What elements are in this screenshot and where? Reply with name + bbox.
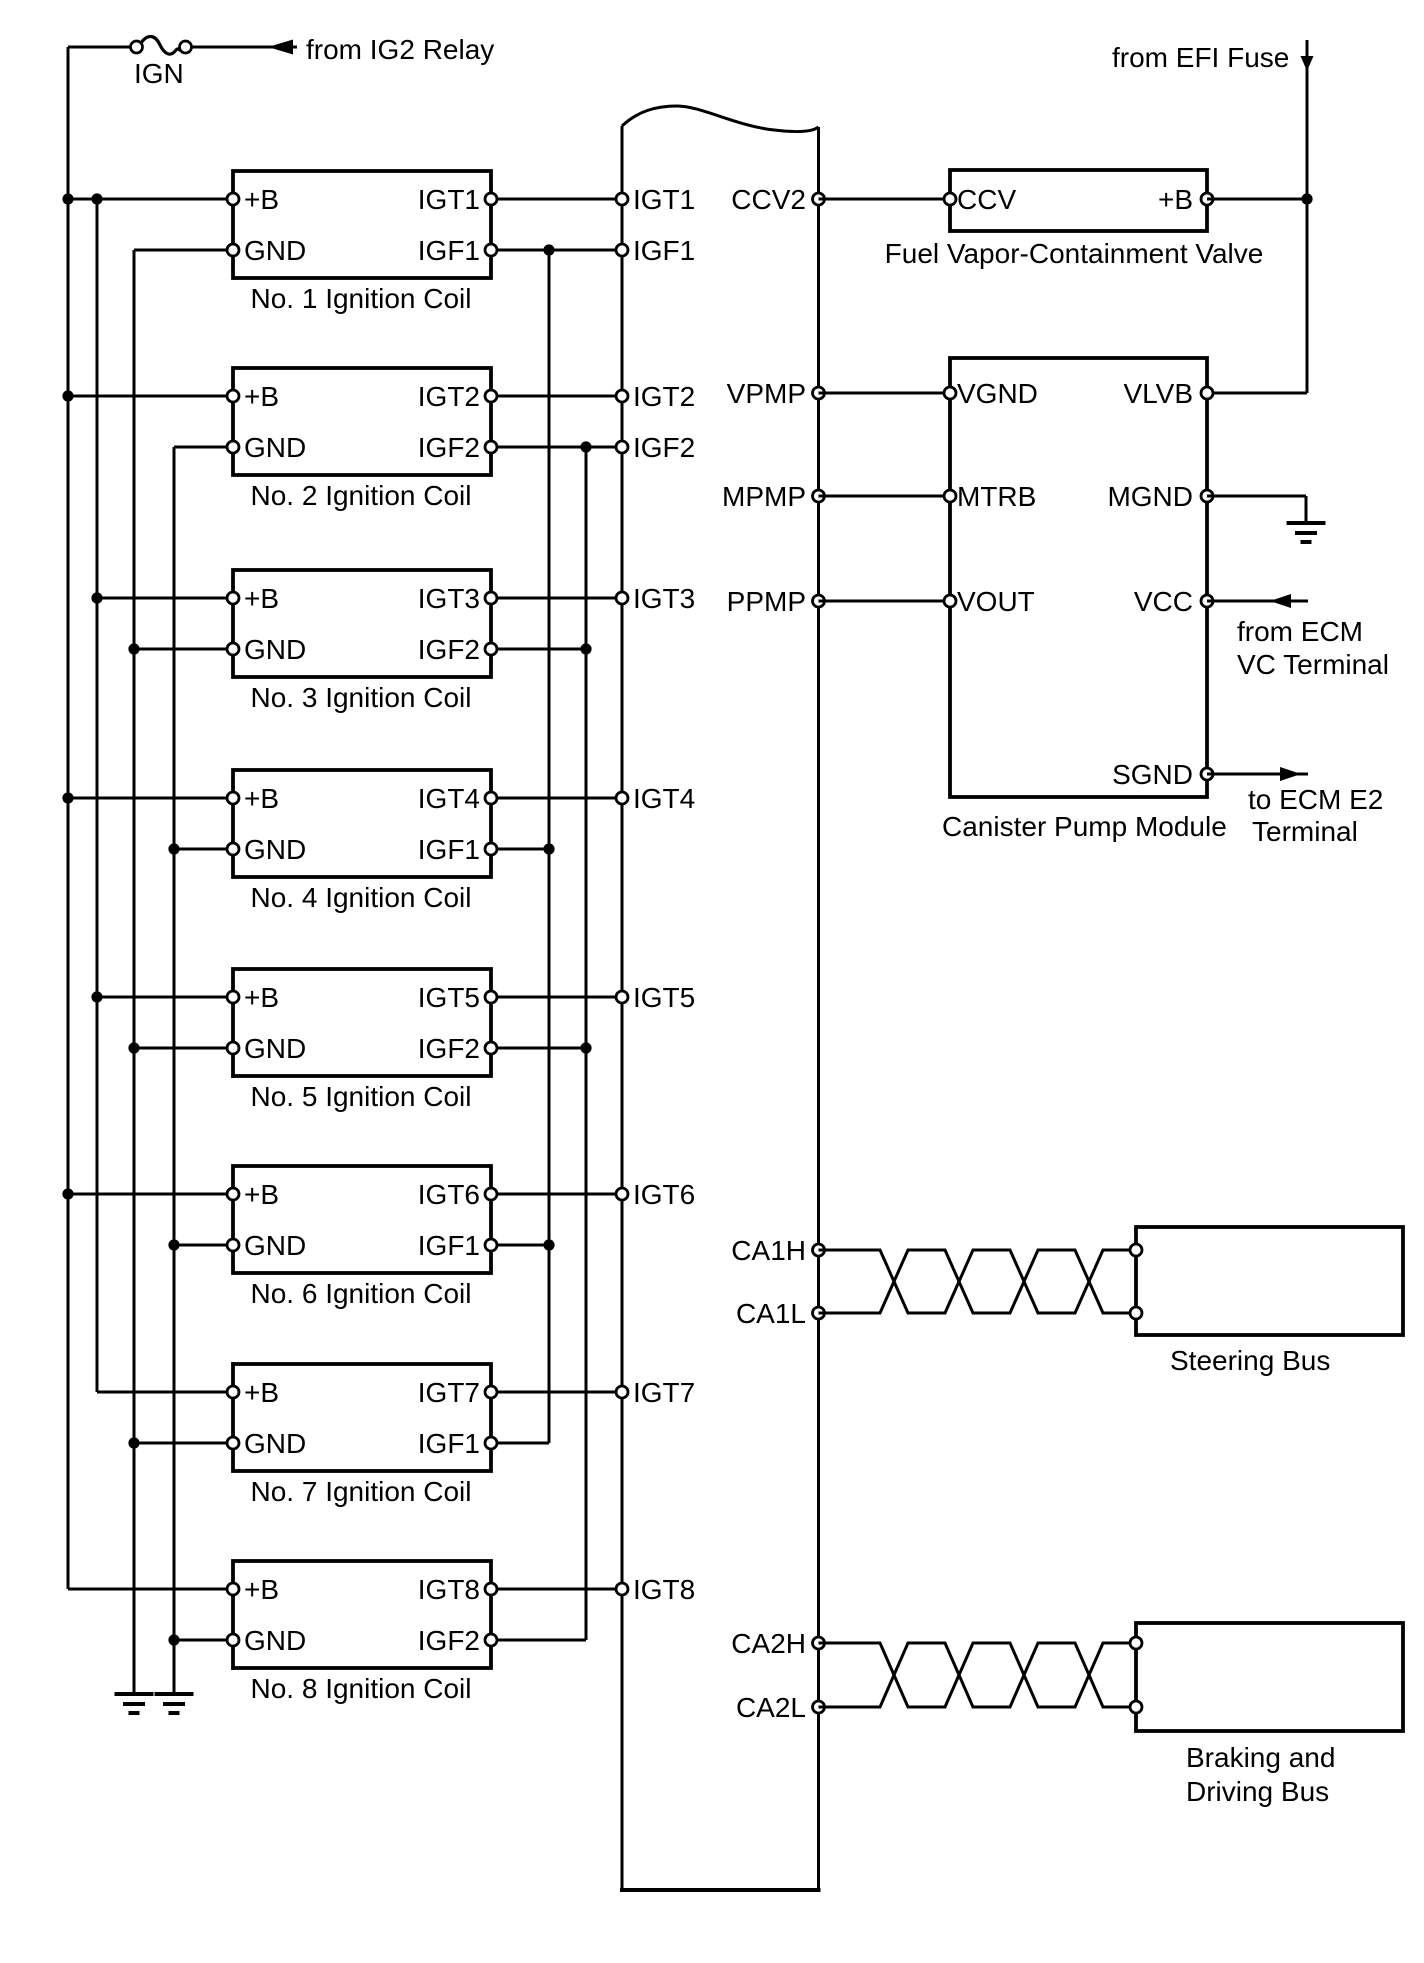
label GND coil 4 [244, 834, 306, 865]
junction rail D coil 8 GND [168, 1634, 179, 1645]
wire rail B (+B bus odd coils) [96, 199, 99, 1392]
ignition coil box No.4 [233, 770, 491, 877]
label ECM IGF1 [633, 235, 695, 266]
ground rail C [115, 1694, 154, 1713]
pin canister MGND [1201, 490, 1213, 502]
label IGT2 coil 2 [418, 381, 480, 412]
svg-text:+B: +B [244, 583, 279, 614]
svg-text:from IG2 Relay: from IG2 Relay [306, 34, 494, 65]
pin +B coil 6 [227, 1188, 239, 1200]
junction rail B coil 5 +B [91, 991, 102, 1002]
wire +B coil 4 [68, 797, 233, 800]
junction rail C coil 3 GND [128, 643, 139, 654]
label IGF2 coil 3 [418, 634, 480, 665]
label GND coil 8 [244, 1625, 306, 1656]
ground rail D [155, 1694, 194, 1713]
label ECM MPMP [722, 481, 806, 512]
label IGF1 coil 6 [418, 1230, 480, 1261]
label Steering Bus [1170, 1345, 1330, 1376]
label ECM IGT1 [633, 184, 695, 215]
label Braking and [1186, 1742, 1335, 1773]
wire IGT1 coil 1 to ECM [491, 198, 622, 201]
wire VCC [1207, 600, 1308, 603]
wire IGF2 coil 3 [491, 648, 586, 651]
wire rail D (GND bus even coils) [173, 447, 176, 1694]
wire CCV2 to CCV [819, 198, 951, 201]
svg-text:Braking and: Braking and [1186, 1742, 1335, 1773]
svg-text:No. 4 Ignition Coil: No. 4 Ignition Coil [250, 882, 471, 913]
pin ECM MPMP [813, 490, 825, 502]
label from IG2 Relay [306, 34, 494, 65]
label canister VGND [957, 378, 1038, 409]
pin ECM CA1H [813, 1244, 825, 1256]
wire +B coil 7 [97, 1391, 233, 1394]
label IGF1 coil 7 [418, 1428, 480, 1459]
label canister VCC [1134, 586, 1193, 617]
svg-text:IGT1: IGT1 [633, 184, 695, 215]
pin ECM CCV2 [813, 193, 825, 205]
wire IGT6 coil 6 to ECM [491, 1193, 622, 1196]
pin IGF2 coil 5 [485, 1042, 497, 1054]
wire IGT3 coil 3 to ECM [491, 597, 622, 600]
label canister MTRB [957, 481, 1036, 512]
svg-text:+B: +B [244, 982, 279, 1013]
steering bus box [1136, 1227, 1403, 1335]
label IGF2 coil 5 [418, 1033, 480, 1064]
ignition coil box No.3 [233, 570, 491, 677]
label ECM PPMP [727, 586, 806, 617]
svg-text:GND: GND [244, 834, 306, 865]
junction IGF1 net coil 6 [543, 1239, 554, 1250]
pin valve +B [1201, 193, 1213, 205]
svg-text:Terminal: Terminal [1252, 816, 1358, 847]
wire IGT5 coil 5 to ECM [491, 996, 622, 999]
label IGF2 coil 8 [418, 1625, 480, 1656]
svg-text:IGT5: IGT5 [418, 982, 480, 1013]
pin ECM IGT5 [616, 991, 628, 1003]
label IGT5 coil 5 [418, 982, 480, 1013]
pin GND coil 8 [227, 1634, 239, 1646]
arrow from IG2 Relay [268, 40, 293, 55]
label from ECM [1237, 616, 1363, 647]
pin +B coil 8 [227, 1583, 239, 1595]
pin IGF1 coil 1 [485, 244, 497, 256]
wire IGF2 coil 8 [491, 1639, 586, 1642]
wire IGF2 coil 2 to ECM [491, 446, 622, 449]
wire IGF2 vertical net [585, 447, 588, 1640]
svg-text:IGT4: IGT4 [633, 783, 695, 814]
svg-text:IGF1: IGF1 [418, 1428, 480, 1459]
label IGT4 coil 4 [418, 783, 480, 814]
wire IGT4 coil 4 to ECM [491, 797, 622, 800]
pin IGT3 coil 3 [485, 592, 497, 604]
svg-text:MTRB: MTRB [957, 481, 1036, 512]
label IGT8 coil 8 [418, 1574, 480, 1605]
pin CCV [944, 193, 956, 205]
svg-text:+B: +B [1158, 184, 1193, 215]
junction IGF2 net coil 3 [580, 643, 591, 654]
pin IGF2 coil 2 [485, 441, 497, 453]
svg-text:+B: +B [244, 1377, 279, 1408]
label IGF1 coil 1 [418, 235, 480, 266]
arrow out of SGND [1280, 767, 1301, 781]
label No. 4 Ignition Coil [250, 882, 471, 913]
wire CA2H twisted pair [819, 1643, 1141, 1707]
svg-text:IGF1: IGF1 [418, 834, 480, 865]
pin ECM IGT8 [616, 1583, 628, 1595]
pin braking bus CA2L [1130, 1701, 1142, 1713]
svg-text:PPMP: PPMP [727, 586, 806, 617]
label ECM IGT5 [633, 982, 695, 1013]
pin ECM IGT6 [616, 1188, 628, 1200]
wire CA2L twisted pair [819, 1643, 1141, 1707]
junction IGF2 net coil 5 [580, 1042, 591, 1053]
label ECM IGT6 [633, 1179, 695, 1210]
svg-text:IGF2: IGF2 [418, 432, 480, 463]
ignition coil box No.6 [233, 1166, 491, 1273]
label ECM IGT4 [633, 783, 695, 814]
svg-text:Driving Bus: Driving Bus [1186, 1776, 1329, 1807]
pin +B coil 7 [227, 1386, 239, 1398]
wire IGF1 vertical net [548, 250, 551, 1443]
label IGN [134, 58, 184, 89]
svg-text:IGF2: IGF2 [418, 634, 480, 665]
ground MGND [1287, 523, 1326, 542]
svg-text:IGT8: IGT8 [418, 1574, 480, 1605]
svg-text:GND: GND [244, 1428, 306, 1459]
label canister SGND [1112, 759, 1193, 790]
pin IGT6 coil 6 [485, 1188, 497, 1200]
svg-text:IGT1: IGT1 [418, 184, 480, 215]
fuel vapor-containment valve box [950, 170, 1207, 231]
label IGT3 coil 3 [418, 583, 480, 614]
svg-text:IGT2: IGT2 [418, 381, 480, 412]
svg-text:IGT3: IGT3 [418, 583, 480, 614]
label to ECM E2 [1248, 784, 1383, 815]
canister pump module box [950, 358, 1207, 797]
pin GND coil 1 [227, 244, 239, 256]
svg-text:IGT5: IGT5 [633, 982, 695, 1013]
junction IGF2 net coil 2 [580, 441, 591, 452]
label ECM CA2L [736, 1692, 806, 1723]
label canister VOUT [957, 586, 1035, 617]
svg-text:Canister Pump Module: Canister Pump Module [942, 811, 1227, 842]
wire IGF1 coil 1 to ECM [491, 249, 622, 252]
wire GND coil 6 [174, 1244, 233, 1247]
junction rail A coil 6 +B [62, 1188, 73, 1199]
wire EFI fuse vertical [1306, 40, 1309, 393]
label +B coil 4 [244, 783, 279, 814]
wire +B coil 8 [68, 1588, 233, 1591]
wire IGF1 coil 7 [491, 1442, 549, 1445]
wire +B coil 3 [97, 597, 233, 600]
svg-text:VLVB: VLVB [1123, 378, 1193, 409]
pin ECM CA2H [813, 1637, 825, 1649]
wire fuse to IG2 relay arrow [191, 46, 297, 49]
label No. 6 Ignition Coil [250, 1278, 471, 1309]
svg-text:CA1H: CA1H [731, 1235, 806, 1266]
label GND coil 1 [244, 235, 306, 266]
label ECM IGF2 [633, 432, 695, 463]
pin ECM CA1L [813, 1307, 825, 1319]
label +B coil 8 [244, 1574, 279, 1605]
svg-text:No. 6 Ignition Coil: No. 6 Ignition Coil [250, 1278, 471, 1309]
wire rail A (+B bus, IGN) [67, 47, 70, 1589]
pin IGT5 coil 5 [485, 991, 497, 1003]
wire IGF2 coil 5 [491, 1047, 586, 1050]
wire GND coil 4 [174, 848, 233, 851]
svg-text:to ECM E2: to ECM E2 [1248, 784, 1383, 815]
wire VLVB to EFI line [1207, 392, 1307, 395]
wire SGND [1207, 773, 1308, 776]
svg-text:IGF2: IGF2 [418, 1625, 480, 1656]
label Canister Pump Module [942, 811, 1227, 842]
svg-text:GND: GND [244, 1625, 306, 1656]
junction rail B coil 1 +B [91, 193, 102, 204]
label VC Terminal [1237, 649, 1389, 680]
wire CA1H twisted pair [819, 1250, 1141, 1313]
wire +B coil 6 [68, 1193, 233, 1196]
svg-text:IGF1: IGF1 [633, 235, 695, 266]
braking and driving bus box [1136, 1623, 1403, 1731]
wire VPMP to VGND [819, 392, 951, 395]
label from EFI Fuse [1112, 42, 1289, 73]
wire IGF1 coil 6 [491, 1244, 549, 1247]
wire CA1L twisted pair [819, 1250, 1141, 1313]
wire GND coil 5 [134, 1047, 233, 1050]
pin canister VLVB [1201, 387, 1213, 399]
pin +B coil 5 [227, 991, 239, 1003]
svg-text:VCC: VCC [1134, 586, 1193, 617]
pin ECM PPMP [813, 595, 825, 607]
label GND coil 5 [244, 1033, 306, 1064]
label CCV [957, 184, 1016, 215]
svg-text:VPMP: VPMP [727, 378, 806, 409]
ignition coil box No.1 [233, 171, 491, 278]
label +B coil 3 [244, 583, 279, 614]
svg-text:SGND: SGND [1112, 759, 1193, 790]
ignition coil box No.8 [233, 1561, 491, 1668]
label ECM CCV2 [731, 184, 806, 215]
pin canister VOUT [944, 595, 956, 607]
wire GND coil 7 [134, 1442, 233, 1445]
pin ECM VPMP [813, 387, 825, 399]
svg-text:IGT8: IGT8 [633, 1574, 695, 1605]
svg-text:No. 7 Ignition Coil: No. 7 Ignition Coil [250, 1476, 471, 1507]
svg-text:VOUT: VOUT [957, 586, 1035, 617]
label IGF1 coil 4 [418, 834, 480, 865]
svg-text:from ECM: from ECM [1237, 616, 1363, 647]
arrow from EFI fuse [1301, 56, 1314, 71]
fuse IGN [131, 36, 192, 54]
svg-text:CCV: CCV [957, 184, 1016, 215]
label ECM IGT8 [633, 1574, 695, 1605]
wire +B coil 1 [68, 198, 233, 201]
svg-text:VC Terminal: VC Terminal [1237, 649, 1389, 680]
label ECM IGT3 [633, 583, 695, 614]
svg-text:GND: GND [244, 432, 306, 463]
svg-text:GND: GND [244, 634, 306, 665]
label GND coil 2 [244, 432, 306, 463]
svg-text:CCV2: CCV2 [731, 184, 806, 215]
pin ECM IGT1 [616, 193, 628, 205]
svg-text:+B: +B [244, 381, 279, 412]
svg-text:IGF2: IGF2 [418, 1033, 480, 1064]
junction EFI line +B [1301, 193, 1312, 204]
label ECM CA1L [736, 1298, 806, 1329]
junction rail D coil 6 GND [168, 1239, 179, 1250]
svg-text:No. 3 Ignition Coil: No. 3 Ignition Coil [250, 682, 471, 713]
pin steering bus CA1H [1130, 1244, 1142, 1256]
label IGT7 coil 7 [418, 1377, 480, 1408]
wire MGND to ground [1207, 496, 1306, 523]
pin +B coil 4 [227, 792, 239, 804]
label IGT1 coil 1 [418, 184, 480, 215]
label canister MGND [1107, 481, 1193, 512]
wire rail C (GND bus odd coils) [133, 250, 136, 1694]
pin GND coil 5 [227, 1042, 239, 1054]
svg-text:GND: GND [244, 1033, 306, 1064]
svg-text:IGT3: IGT3 [633, 583, 695, 614]
svg-text:+B: +B [244, 1179, 279, 1210]
svg-text:IGN: IGN [134, 58, 184, 89]
svg-text:from EFI Fuse: from EFI Fuse [1112, 42, 1289, 73]
pin IGT7 coil 7 [485, 1386, 497, 1398]
svg-text:Fuel Vapor-Containment Valve: Fuel Vapor-Containment Valve [885, 238, 1264, 269]
wire PPMP to VOUT [819, 600, 951, 603]
svg-text:No. 1 Ignition Coil: No. 1 Ignition Coil [250, 283, 471, 314]
wire GND coil 3 [134, 648, 233, 651]
junction rail A coil 4 +B [62, 792, 73, 803]
label valve +B [1158, 184, 1193, 215]
pin ECM IGT3 [616, 592, 628, 604]
label ECM IGT2 [633, 381, 695, 412]
pin GND coil 7 [227, 1437, 239, 1449]
pin IGT1 coil 1 [485, 193, 497, 205]
label ECM CA1H [731, 1235, 806, 1266]
label No. 1 Ignition Coil [250, 283, 471, 314]
pin +B coil 3 [227, 592, 239, 604]
label ECM CA2H [731, 1628, 806, 1659]
pin ECM IGT7 [616, 1386, 628, 1398]
label ECM IGT7 [633, 1377, 695, 1408]
svg-text:GND: GND [244, 235, 306, 266]
pin canister VCC [1201, 595, 1213, 607]
label GND coil 3 [244, 634, 306, 665]
svg-text:No. 8 Ignition Coil: No. 8 Ignition Coil [250, 1673, 471, 1704]
svg-text:IGT6: IGT6 [418, 1179, 480, 1210]
ECM right edge [817, 127, 820, 1890]
junction rail B coil 3 +B [91, 592, 102, 603]
junction rail C coil 7 GND [128, 1437, 139, 1448]
pin ECM IGT2 [616, 390, 628, 402]
svg-text:No. 2 Ignition Coil: No. 2 Ignition Coil [250, 480, 471, 511]
pin IGF2 coil 3 [485, 643, 497, 655]
label IGF2 coil 2 [418, 432, 480, 463]
pin +B coil 2 [227, 390, 239, 402]
pin IGT2 coil 2 [485, 390, 497, 402]
arrow into VCC [1270, 594, 1291, 608]
svg-text:IGT6: IGT6 [633, 1179, 695, 1210]
pin GND coil 3 [227, 643, 239, 655]
label ECM VPMP [727, 378, 806, 409]
wire MPMP to MTRB [819, 495, 951, 498]
label Fuel Vapor-Containment Valve [885, 238, 1264, 269]
label IGT6 coil 6 [418, 1179, 480, 1210]
pin ECM IGF2 [616, 441, 628, 453]
svg-text:IGF2: IGF2 [633, 432, 695, 463]
wire IGF1 coil 4 [491, 848, 549, 851]
svg-text:CA2H: CA2H [731, 1628, 806, 1659]
label No. 7 Ignition Coil [250, 1476, 471, 1507]
wire +B coil 2 [68, 395, 233, 398]
label No. 8 Ignition Coil [250, 1673, 471, 1704]
svg-text:+B: +B [244, 184, 279, 215]
svg-text:+B: +B [244, 1574, 279, 1605]
pin canister VGND [944, 387, 956, 399]
label GND coil 7 [244, 1428, 306, 1459]
wire IGT2 coil 2 to ECM [491, 395, 622, 398]
pin +B coil 1 [227, 193, 239, 205]
svg-text:IGT2: IGT2 [633, 381, 695, 412]
ignition coil box No.2 [233, 368, 491, 475]
label No. 5 Ignition Coil [250, 1081, 471, 1112]
junction IGF1 net coil 4 [543, 843, 554, 854]
pin canister SGND [1201, 768, 1213, 780]
pin ECM IGF1 [616, 244, 628, 256]
svg-text:GND: GND [244, 1230, 306, 1261]
pin IGT8 coil 8 [485, 1583, 497, 1595]
junction rail A coil 1 +B [62, 193, 73, 204]
pin steering bus CA1L [1130, 1307, 1142, 1319]
ECM torn top edge [622, 106, 819, 132]
label +B coil 6 [244, 1179, 279, 1210]
pin IGT4 coil 4 [485, 792, 497, 804]
pin IGF1 coil 7 [485, 1437, 497, 1449]
svg-text:CA1L: CA1L [736, 1298, 806, 1329]
pin canister MTRB [944, 490, 956, 502]
label GND coil 6 [244, 1230, 306, 1261]
label +B coil 2 [244, 381, 279, 412]
ECM bottom edge [620, 1888, 821, 1892]
svg-text:MGND: MGND [1107, 481, 1193, 512]
svg-text:MPMP: MPMP [722, 481, 806, 512]
label Terminal [1252, 816, 1358, 847]
junction rail C coil 5 GND [128, 1042, 139, 1053]
pin braking bus CA2H [1130, 1637, 1142, 1649]
label +B coil 5 [244, 982, 279, 1013]
wire IGT7 coil 7 to ECM [491, 1391, 622, 1394]
pin IGF1 coil 6 [485, 1239, 497, 1251]
pin GND coil 4 [227, 843, 239, 855]
wire IGN feed from fuse to rail A corner [68, 46, 131, 49]
junction rail A coil 2 +B [62, 390, 73, 401]
svg-text:CA2L: CA2L [736, 1692, 806, 1723]
ignition coil box No.7 [233, 1364, 491, 1471]
label No. 2 Ignition Coil [250, 480, 471, 511]
ECM left edge [621, 126, 624, 1890]
label +B coil 7 [244, 1377, 279, 1408]
junction IGF1 net coil 1 [543, 244, 554, 255]
svg-text:IGT7: IGT7 [418, 1377, 480, 1408]
ignition coil box No.5 [233, 969, 491, 1076]
svg-text:+B: +B [244, 783, 279, 814]
wire valve +B to EFI line [1207, 198, 1307, 201]
junction rail D coil 4 GND [168, 843, 179, 854]
wire GND coil 2 [174, 446, 233, 449]
svg-text:No. 5 Ignition Coil: No. 5 Ignition Coil [250, 1081, 471, 1112]
svg-text:IGF1: IGF1 [418, 1230, 480, 1261]
